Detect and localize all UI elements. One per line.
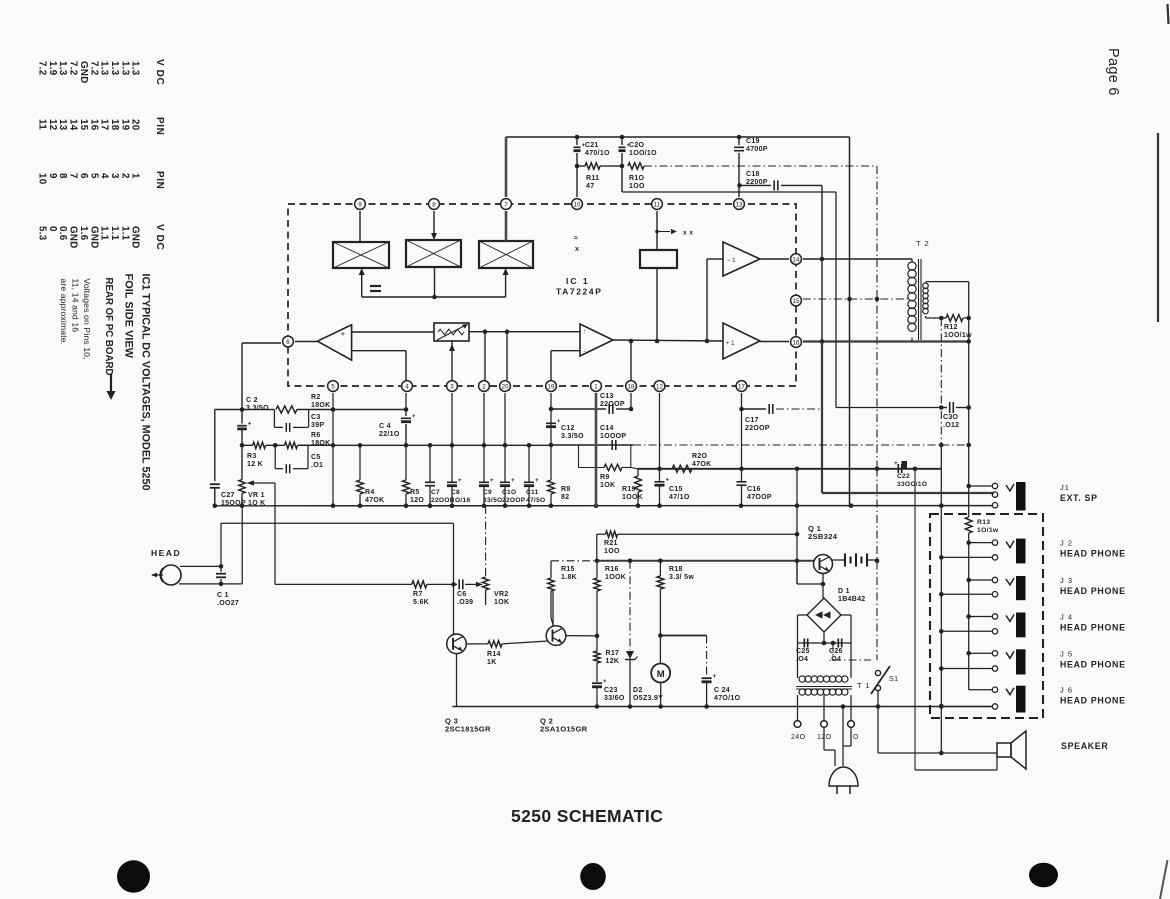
- svg-text:22/1O: 22/1O: [379, 431, 400, 438]
- svg-text:4700P: 4700P: [746, 146, 768, 153]
- svg-text:3: 3: [109, 173, 120, 179]
- svg-text:x: x: [575, 246, 579, 253]
- svg-text:7.2: 7.2: [37, 61, 48, 76]
- svg-text:C8: C8: [451, 489, 460, 496]
- svg-text:−: −: [341, 352, 345, 359]
- svg-text:22OOP: 22OOP: [745, 425, 770, 432]
- svg-text:1OO: 1OO: [629, 183, 645, 190]
- svg-text:PIN: PIN: [154, 117, 165, 135]
- svg-text:C13: C13: [600, 393, 614, 400]
- svg-text:39P: 39P: [311, 422, 324, 429]
- svg-text:17: 17: [738, 383, 745, 390]
- svg-text:+: +: [535, 478, 539, 484]
- svg-text:+: +: [603, 679, 607, 685]
- svg-text:47OOP: 47OOP: [747, 494, 772, 501]
- svg-text:1OO: 1OO: [604, 548, 620, 555]
- svg-text:C18: C18: [746, 171, 760, 178]
- svg-text:1O/16: 1O/16: [451, 497, 470, 504]
- svg-text:+ 1: + 1: [726, 341, 735, 347]
- svg-text:+: +: [490, 478, 494, 484]
- svg-text:C26: C26: [829, 648, 843, 655]
- svg-text:R17: R17: [606, 650, 620, 657]
- svg-text:15: 15: [78, 119, 89, 131]
- svg-text:1.1: 1.1: [99, 226, 110, 241]
- svg-text:47OK: 47OK: [692, 461, 712, 468]
- svg-text:1.3: 1.3: [99, 61, 110, 76]
- svg-text:12: 12: [47, 119, 58, 131]
- svg-text:2SB324: 2SB324: [808, 532, 838, 541]
- svg-text:47OK: 47OK: [365, 497, 385, 504]
- svg-text:C6: C6: [457, 591, 467, 598]
- svg-text:6: 6: [78, 173, 89, 179]
- svg-text:J 2: J 2: [1060, 539, 1073, 548]
- svg-text:11, 14 and 16: 11, 14 and 16: [71, 278, 81, 332]
- svg-text:1OO/1O: 1OO/1O: [629, 150, 657, 157]
- svg-text:47/5O: 47/5O: [526, 497, 545, 504]
- svg-text:R11: R11: [586, 175, 599, 182]
- svg-text:C 2: C 2: [246, 397, 258, 404]
- svg-text:5.3: 5.3: [37, 226, 48, 241]
- svg-text:3.3/5O: 3.3/5O: [246, 405, 269, 412]
- svg-text:VR 1: VR 1: [248, 492, 265, 499]
- svg-text:R14: R14: [487, 651, 501, 658]
- svg-text:J 3: J 3: [1060, 576, 1073, 585]
- svg-text:+: +: [341, 331, 345, 338]
- svg-text:11: 11: [654, 201, 661, 208]
- svg-text:3.3/5O: 3.3/5O: [561, 433, 584, 440]
- svg-text:C12: C12: [561, 425, 575, 432]
- svg-text:33/5O: 33/5O: [483, 497, 502, 504]
- svg-text:x x: x x: [683, 230, 694, 237]
- svg-text:R4: R4: [365, 489, 375, 496]
- svg-text:C17: C17: [745, 417, 759, 424]
- svg-text:1.3: 1.3: [109, 61, 120, 76]
- svg-text:.OO27: .OO27: [217, 600, 239, 607]
- svg-text:R12: R12: [944, 324, 958, 331]
- svg-text:47O/1O: 47O/1O: [714, 695, 741, 702]
- svg-text:REAR OF PC BOARD: REAR OF PC BOARD: [103, 278, 114, 376]
- svg-text:1O/1w: 1O/1w: [977, 527, 999, 534]
- svg-text:8: 8: [432, 201, 436, 208]
- svg-text:2SA1O15GR: 2SA1O15GR: [540, 725, 588, 734]
- svg-text:C5: C5: [311, 454, 321, 461]
- svg-text:V DC: V DC: [154, 224, 165, 250]
- svg-text:33OO/1O: 33OO/1O: [897, 481, 927, 488]
- svg-text:14: 14: [793, 256, 800, 263]
- svg-text:HEAD: HEAD: [151, 548, 181, 558]
- svg-text:2SC1815GR: 2SC1815GR: [445, 725, 491, 734]
- svg-text:VR2: VR2: [494, 591, 509, 598]
- svg-text:J 5: J 5: [1060, 649, 1073, 658]
- svg-text:IC 1: IC 1: [566, 276, 590, 286]
- svg-text:+: +: [713, 674, 717, 680]
- svg-text:R2: R2: [311, 394, 321, 401]
- svg-text:4: 4: [99, 173, 110, 179]
- svg-text:470/1O: 470/1O: [585, 150, 610, 157]
- svg-text:R5: R5: [410, 489, 420, 496]
- svg-text:HEAD PHONE: HEAD PHONE: [1060, 623, 1126, 633]
- svg-text:19: 19: [548, 383, 555, 390]
- svg-text:18OK: 18OK: [311, 440, 331, 447]
- svg-text:R8: R8: [561, 486, 571, 493]
- svg-text:1B4B42: 1B4B42: [838, 596, 865, 603]
- svg-text:1.9: 1.9: [47, 61, 58, 76]
- svg-text:1.3: 1.3: [119, 61, 130, 76]
- svg-text:1OOK: 1OOK: [622, 494, 643, 501]
- svg-text:EXT. SP: EXT. SP: [1060, 493, 1098, 503]
- svg-text:1K: 1K: [487, 659, 497, 666]
- svg-text:T 2: T 2: [916, 239, 930, 248]
- svg-text:16: 16: [88, 119, 99, 131]
- svg-text:12O: 12O: [410, 497, 424, 504]
- svg-text:12 K: 12 K: [247, 461, 263, 468]
- svg-text:1OK: 1OK: [600, 482, 615, 489]
- svg-text:C9: C9: [483, 489, 492, 496]
- svg-text:C11: C11: [526, 489, 539, 496]
- svg-text:10: 10: [37, 173, 48, 185]
- svg-text:1OOK: 1OOK: [605, 574, 626, 581]
- svg-text:1.1: 1.1: [119, 226, 130, 241]
- svg-text:−: −: [583, 349, 587, 355]
- svg-text:7: 7: [68, 173, 79, 179]
- svg-text:1OK: 1OK: [494, 599, 509, 606]
- svg-text:HEAD PHONE: HEAD PHONE: [1060, 586, 1126, 596]
- svg-text:R2O: R2O: [692, 453, 708, 460]
- svg-text:SPEAKER: SPEAKER: [1061, 741, 1108, 751]
- svg-text:5: 5: [88, 173, 99, 179]
- svg-text:1.3: 1.3: [57, 61, 68, 76]
- svg-text:R1O: R1O: [629, 175, 645, 182]
- svg-text:D2: D2: [633, 687, 643, 694]
- svg-text:R6: R6: [311, 432, 321, 439]
- svg-text:R18: R18: [669, 566, 683, 573]
- svg-text:O: O: [853, 734, 859, 741]
- svg-text:+: +: [458, 478, 462, 484]
- svg-text:1.6: 1.6: [78, 226, 89, 241]
- svg-text:47: 47: [586, 183, 594, 190]
- svg-text:C15: C15: [669, 486, 683, 493]
- svg-text:C21: C21: [585, 142, 599, 149]
- svg-text:+: +: [412, 414, 416, 420]
- svg-text:13: 13: [57, 119, 68, 131]
- svg-text:1: 1: [594, 383, 598, 390]
- svg-text:11: 11: [37, 119, 48, 130]
- svg-text:1.8K: 1.8K: [561, 574, 577, 581]
- svg-text:+: +: [894, 460, 898, 467]
- svg-text:C 4: C 4: [379, 423, 391, 430]
- svg-text:R16: R16: [605, 566, 619, 573]
- svg-text:1.3: 1.3: [130, 61, 141, 76]
- svg-text:S1: S1: [889, 676, 898, 683]
- svg-text:5.6K: 5.6K: [413, 599, 429, 606]
- svg-text:are approximate.: are approximate.: [59, 278, 69, 345]
- svg-text:R7: R7: [413, 591, 423, 598]
- svg-text:.O12: .O12: [943, 422, 959, 429]
- svg-text:R19: R19: [622, 486, 636, 493]
- svg-text:C16: C16: [747, 486, 761, 493]
- svg-text:J 6: J 6: [1060, 686, 1073, 695]
- svg-text:FOIL SIDE VIEW: FOIL SIDE VIEW: [123, 274, 135, 359]
- svg-text:7.2: 7.2: [68, 61, 79, 76]
- svg-text:0.6: 0.6: [57, 226, 68, 241]
- svg-text:6: 6: [286, 339, 290, 346]
- svg-text:18: 18: [628, 383, 635, 390]
- svg-text:33/6O: 33/6O: [604, 695, 625, 702]
- svg-text:+: +: [248, 421, 252, 427]
- svg-text:C3O: C3O: [943, 414, 959, 421]
- svg-text:.O39: .O39: [457, 599, 473, 606]
- svg-text:2200P: 2200P: [746, 179, 768, 186]
- svg-text:18: 18: [109, 119, 120, 131]
- svg-text:↑: ↑: [583, 329, 586, 335]
- svg-text:10: 10: [574, 201, 581, 208]
- svg-text:J 4: J 4: [1060, 613, 1073, 622]
- svg-text:HEAD PHONE: HEAD PHONE: [1060, 549, 1126, 559]
- svg-text:R3: R3: [247, 453, 257, 460]
- svg-text:7: 7: [504, 201, 508, 208]
- svg-text:16: 16: [793, 339, 800, 346]
- svg-text:Voltages on Pins 10,: Voltages on Pins 10,: [82, 278, 92, 359]
- svg-text:47/1O: 47/1O: [669, 494, 690, 501]
- svg-text:7.2: 7.2: [88, 61, 99, 76]
- svg-text:2: 2: [482, 383, 486, 390]
- svg-text:C23: C23: [604, 687, 618, 694]
- svg-text:18OK: 18OK: [311, 402, 331, 409]
- svg-text:HEAD PHONE: HEAD PHONE: [1060, 696, 1126, 706]
- svg-text:HEAD PHONE: HEAD PHONE: [1060, 659, 1126, 669]
- svg-text:+: +: [666, 478, 670, 484]
- svg-text:4: 4: [405, 383, 409, 390]
- svg-text:IC1 TYPICAL DC VOLTAGES, MODEL: IC1 TYPICAL DC VOLTAGES, MODEL 5250: [140, 274, 152, 491]
- svg-text:V DC: V DC: [154, 59, 165, 85]
- svg-text:0: 0: [47, 226, 58, 232]
- svg-text:R13: R13: [977, 519, 990, 526]
- svg-text:− 1: − 1: [727, 258, 736, 264]
- svg-text:13: 13: [736, 201, 743, 208]
- svg-text:C27: C27: [221, 492, 235, 499]
- svg-text:C 1: C 1: [217, 592, 229, 599]
- svg-text:22OOP: 22OOP: [600, 401, 625, 408]
- svg-text:GND: GND: [88, 226, 99, 249]
- svg-text:C19: C19: [746, 138, 760, 145]
- svg-text:M: M: [657, 669, 665, 680]
- svg-text:+: +: [511, 478, 515, 484]
- svg-text:PIN: PIN: [154, 171, 165, 189]
- svg-text:1OOOP: 1OOOP: [600, 433, 626, 440]
- svg-text:3: 3: [450, 383, 454, 390]
- svg-text:C3: C3: [311, 414, 321, 421]
- svg-text:R15: R15: [561, 566, 575, 573]
- svg-text:24O: 24O: [791, 734, 806, 741]
- svg-text:2: 2: [119, 173, 130, 179]
- svg-text:Page 6: Page 6: [1105, 48, 1121, 96]
- svg-text:T 1: T 1: [857, 681, 871, 690]
- svg-text:C 24: C 24: [714, 687, 730, 694]
- svg-text:82: 82: [561, 494, 569, 501]
- svg-text:17: 17: [99, 119, 110, 131]
- svg-text:12: 12: [656, 383, 663, 390]
- svg-text:22OOP: 22OOP: [502, 497, 526, 504]
- svg-text:GND: GND: [68, 226, 79, 249]
- svg-text:R21: R21: [604, 540, 618, 547]
- svg-text:1.1: 1.1: [109, 226, 120, 241]
- svg-text:GND: GND: [78, 61, 89, 84]
- svg-text:19: 19: [119, 119, 130, 131]
- svg-text:5: 5: [331, 383, 335, 390]
- svg-text:C2O: C2O: [629, 142, 645, 149]
- svg-text:D 1: D 1: [838, 588, 850, 595]
- svg-text:1: 1: [130, 173, 141, 179]
- svg-text:3.3/ 5w: 3.3/ 5w: [669, 574, 694, 581]
- svg-text:.O1: .O1: [311, 462, 323, 469]
- svg-text:C14: C14: [600, 425, 614, 432]
- svg-text:C7: C7: [431, 489, 440, 496]
- svg-text:14: 14: [68, 119, 79, 131]
- svg-text:12K: 12K: [606, 658, 620, 665]
- svg-text:C1O: C1O: [502, 489, 516, 496]
- svg-text:8: 8: [57, 173, 68, 179]
- svg-text:5250 SCHEMATIC: 5250 SCHEMATIC: [511, 806, 663, 826]
- svg-text:20: 20: [502, 383, 509, 390]
- svg-text:TA7224P: TA7224P: [556, 287, 602, 297]
- svg-text:1OO/1w: 1OO/1w: [944, 332, 972, 339]
- svg-text:C22: C22: [897, 473, 910, 480]
- svg-text:≈: ≈: [574, 235, 578, 242]
- svg-text:GND: GND: [130, 226, 141, 249]
- svg-text:R9: R9: [600, 474, 610, 481]
- svg-text:O5Z3.9Y: O5Z3.9Y: [633, 695, 663, 702]
- svg-text:9: 9: [358, 201, 362, 208]
- svg-text:J1: J1: [1060, 483, 1070, 492]
- svg-text:9: 9: [47, 173, 58, 179]
- svg-text:20: 20: [130, 119, 141, 131]
- svg-text:15: 15: [793, 298, 800, 305]
